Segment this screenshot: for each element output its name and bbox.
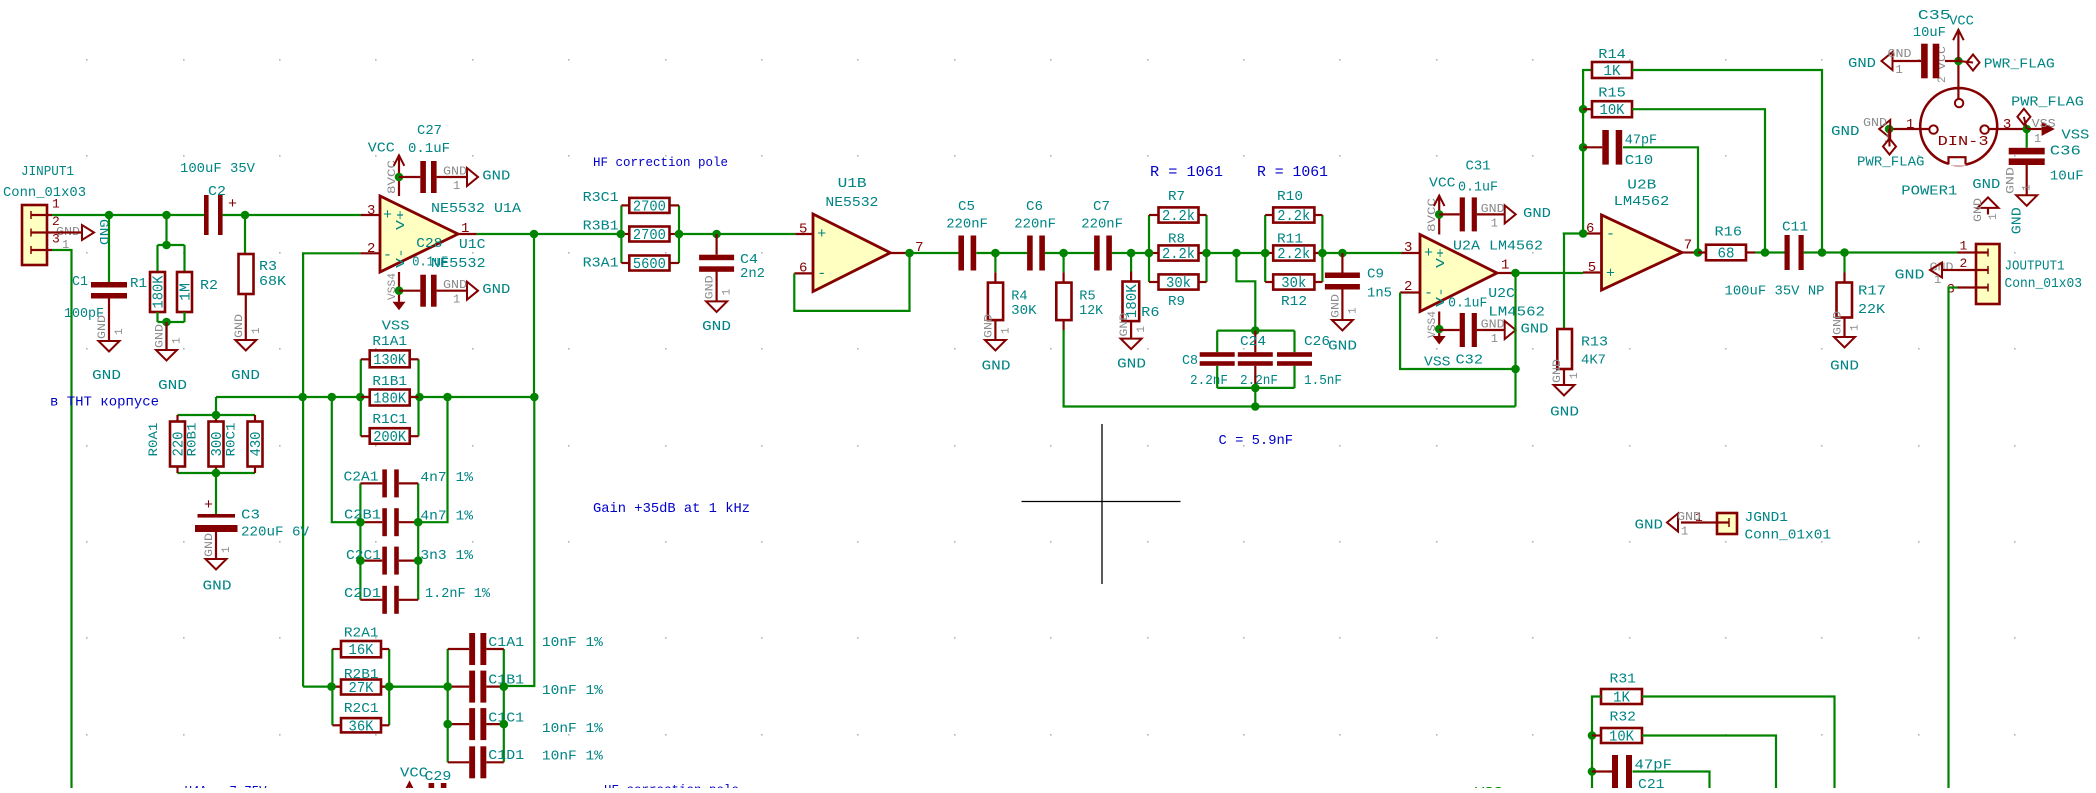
power GND at JINPUT1 pin 2	[52, 219, 111, 252]
svg-text:12K: 12K	[1079, 303, 1103, 319]
svg-text:R3: R3	[259, 259, 277, 275]
svg-text:GND: GND	[1328, 339, 1357, 355]
svg-text:220nF: 220nF	[946, 217, 988, 233]
svg-text:GND: GND	[203, 579, 232, 595]
svg-text:GND: GND	[983, 314, 995, 338]
capacitor bank bottom rail	[1217, 366, 1294, 407]
svg-text:R0A1: R0A1	[146, 422, 161, 456]
junction rail x447	[443, 393, 452, 402]
svg-text:R17: R17	[1858, 284, 1886, 300]
ground below R4	[982, 314, 1013, 375]
svg-text:GND: GND	[1972, 177, 2000, 193]
svg-text:4K7: 4K7	[1581, 353, 1606, 369]
junction U1A VCC	[395, 173, 404, 182]
svg-text:C3: C3	[241, 508, 260, 524]
svg-text:5: 5	[799, 222, 807, 238]
junction rail x419	[415, 393, 424, 402]
connector JINPUT1	[3, 164, 86, 265]
wire R2 bank to C1 bank	[389, 685, 448, 687]
junction R3 bank right	[675, 230, 684, 239]
resistor R2B1 27K	[341, 667, 381, 697]
svg-text:10uF: 10uF	[2050, 169, 2084, 185]
svg-text:220nF: 220nF	[1014, 217, 1056, 233]
resistor R0A1 220	[146, 422, 188, 467]
resistor R14 1K	[1592, 47, 1632, 80]
svg-text:VCC: VCC	[1949, 13, 1974, 29]
junction at C1 tap	[105, 211, 114, 220]
resistor R3C1 2700	[583, 190, 670, 215]
connector JGND1	[1681, 510, 1831, 544]
svg-text:R2: R2	[200, 278, 218, 294]
svg-text:+: +	[1606, 266, 1615, 283]
svg-text:1: 1	[221, 546, 233, 553]
svg-text:R1B1: R1B1	[372, 374, 407, 390]
power GND at JOUTPUT1 pin 2	[1895, 261, 1958, 288]
svg-text:GND: GND	[1330, 294, 1342, 318]
svg-text:4n7 1%: 4n7 1%	[420, 470, 473, 486]
svg-text:R3C1: R3C1	[583, 190, 619, 206]
svg-text:1: 1	[453, 293, 460, 307]
capacitor C31 0.1uF bypass	[1439, 159, 1498, 232]
resistor R3 68K	[239, 215, 287, 294]
resistor R16 68	[1698, 225, 1755, 263]
junction C9 tap	[1338, 249, 1347, 258]
wire U1B feedback	[794, 253, 909, 311]
wire R10 bank to U2A	[1322, 252, 1401, 254]
svg-text:R16: R16	[1715, 225, 1743, 241]
ground left of C35	[1848, 47, 1921, 77]
wire R31 left rail	[1592, 697, 1601, 789]
resistor R32 10K	[1592, 710, 1642, 746]
svg-text:R2A1: R2A1	[344, 626, 379, 642]
capacitor C3 220uF 6V	[195, 473, 310, 541]
svg-text:VSS: VSS	[2032, 117, 2056, 131]
capacitor bank C1A1-C1D1 brackets	[448, 649, 504, 762]
wire C11 to JOUTPUT1	[1804, 251, 1958, 253]
capacitor C1C1 10nF	[469, 708, 603, 740]
svg-text:VSS4: VSS4	[1427, 311, 1439, 338]
ground right of C28	[437, 278, 511, 307]
svg-text:2: 2	[1960, 256, 1968, 271]
svg-text:Gain +35dB at 1 kHz: Gain +35dB at 1 kHz	[593, 501, 750, 517]
pin 1 of DIN	[1889, 117, 1929, 133]
ground below C3	[203, 532, 234, 595]
resistor R10 2.2k	[1273, 189, 1314, 225]
wire down to C8 C24 C26 bank	[1236, 253, 1255, 331]
label bottom clipped	[185, 784, 268, 793]
svg-text:NE5532: NE5532	[431, 256, 486, 272]
capacitor C32 0.1uF bypass	[1439, 313, 1483, 369]
svg-text:1: 1	[1501, 258, 1509, 274]
junction rail x302	[298, 393, 307, 402]
svg-text:V-: V-	[1434, 287, 1448, 307]
svg-text:100uF 35V: 100uF 35V	[180, 161, 256, 177]
svg-text:1: 1	[1136, 326, 1148, 333]
resistor R3B1 2700	[583, 219, 670, 245]
resistor R12 30k	[1273, 274, 1314, 310]
svg-text:1: 1	[1000, 327, 1012, 334]
resistor R4 30K	[988, 253, 1037, 320]
svg-text:R3A1: R3A1	[583, 256, 619, 272]
svg-text:30K: 30K	[1011, 303, 1037, 319]
svg-text:68: 68	[1718, 247, 1735, 263]
label HF correction pole	[593, 155, 728, 170]
capacitor C24 2.2nF	[1238, 331, 1278, 389]
resistor R2A1 16K	[341, 626, 381, 659]
svg-text:R14: R14	[1598, 47, 1626, 63]
svg-text:GND: GND	[97, 315, 109, 339]
label HF correction pole bottom	[604, 783, 739, 793]
wire R32 right	[1642, 736, 1776, 789]
svg-text:+: +	[228, 196, 237, 213]
svg-text:C31: C31	[1466, 159, 1491, 175]
svg-text:10nF 1%: 10nF 1%	[542, 749, 604, 765]
resistor bank R10 R11 R12	[1265, 215, 1322, 282]
svg-text:GND: GND	[1888, 47, 1912, 61]
svg-text:GND: GND	[1117, 357, 1146, 373]
capacitor C2A1 4n7	[344, 469, 474, 497]
label C = 5.9nF	[1219, 433, 1294, 449]
wire U1A out rail down	[504, 234, 535, 686]
junction R1R2 top	[162, 241, 171, 250]
junction R15 left	[1579, 105, 1588, 114]
wire feedback to lower rail	[1514, 369, 1516, 407]
svg-text:GND: GND	[1895, 268, 1925, 284]
svg-text:1.5nF: 1.5nF	[1304, 373, 1342, 389]
wire R31 right	[1642, 697, 1835, 789]
svg-text:6: 6	[799, 261, 807, 277]
svg-text:VSS: VSS	[2061, 127, 2089, 143]
op-amp U2B LM4562	[1583, 177, 1699, 290]
junction C2B1 right	[414, 518, 423, 527]
svg-text:U2B: U2B	[1627, 177, 1656, 193]
svg-text:R1A1: R1A1	[372, 334, 407, 350]
svg-text:U2C: U2C	[1488, 286, 1515, 302]
capacitor C1 100pF	[64, 215, 127, 322]
svg-text:30k: 30k	[1281, 276, 1306, 292]
svg-text:22K: 22K	[1858, 302, 1886, 318]
power VCC at C29	[400, 765, 428, 793]
wire C6 C7	[1045, 252, 1094, 254]
svg-text:GND: GND	[1677, 510, 1701, 524]
svg-text:VCC: VCC	[368, 141, 395, 157]
svg-text:C36: C36	[2050, 144, 2081, 160]
connector JOUTPUT1	[1947, 239, 2082, 305]
svg-text:GND: GND	[1552, 359, 1564, 383]
svg-text:U4A = 7.75V: U4A = 7.75V	[185, 784, 268, 788]
svg-text:VSS4: VSS4	[387, 273, 399, 300]
resistor R5 12K	[1056, 253, 1103, 320]
svg-text:PWR_FLAG: PWR_FLAG	[1857, 155, 1925, 171]
svg-text:30k: 30k	[1166, 276, 1191, 292]
svg-text:16K: 16K	[349, 643, 374, 659]
resistor bank R3C1 R3B1 R3A1	[621, 205, 679, 263]
svg-text:GND: GND	[705, 275, 717, 299]
op-amp U2A LM4562	[1400, 197, 1543, 338]
svg-text:2.2k: 2.2k	[1162, 247, 1195, 263]
svg-text:1: 1	[1988, 213, 2000, 220]
svg-text:+: +	[1424, 245, 1433, 262]
svg-text:1: 1	[1491, 216, 1498, 230]
svg-text:1K: 1K	[1613, 691, 1630, 707]
ground below R17	[1830, 311, 1862, 375]
junction DIN pin3	[2022, 125, 2031, 134]
svg-text:0.1uF: 0.1uF	[408, 141, 450, 157]
capacitor C9 1n5	[1325, 253, 1392, 302]
svg-text:C8: C8	[1182, 353, 1198, 369]
resistor R2 1M	[177, 272, 218, 312]
wire R7 bank to R10 bank	[1207, 252, 1266, 254]
junction C2C1 right	[414, 556, 423, 565]
resistor bank R0A1 R0B1 R0C1	[178, 397, 256, 473]
svg-text:R1C1: R1C1	[372, 412, 407, 428]
svg-text:C = 5.9nF: C = 5.9nF	[1219, 433, 1294, 449]
junction C2B1 left	[356, 518, 365, 527]
svg-text:GND: GND	[1521, 322, 1549, 338]
resistor bank R7 R8 R9	[1149, 215, 1207, 282]
svg-text:1: 1	[1569, 372, 1581, 379]
wire U2B pin6 node rail	[1563, 70, 1592, 234]
svg-text:-: -	[383, 247, 392, 264]
wire C10 to U2B output	[1623, 147, 1698, 252]
svg-text:GND: GND	[92, 368, 121, 384]
svg-text:1: 1	[453, 179, 460, 193]
capacitor C4 2n2	[699, 234, 765, 282]
svg-text:C1D1: C1D1	[488, 748, 524, 764]
junction C21 left	[1588, 767, 1597, 776]
svg-text:LM4562: LM4562	[1614, 194, 1670, 210]
svg-text:6: 6	[1586, 221, 1594, 237]
capacitor C2C1 3n3	[346, 547, 474, 575]
svg-text:2n2: 2n2	[740, 266, 765, 282]
junction R2 bank left	[327, 682, 336, 691]
svg-text:C5: C5	[958, 199, 975, 215]
svg-text:1: 1	[1906, 117, 1914, 133]
capacitor C27 0.1uF bypass	[399, 123, 450, 193]
svg-text:C2D1: C2D1	[344, 586, 381, 602]
unit U1C labels	[431, 237, 486, 272]
svg-text:4n7 1%: 4n7 1%	[420, 509, 473, 525]
junction R4 tap	[991, 249, 1000, 258]
wire R3 bank to U1B	[679, 233, 795, 235]
svg-text:10nF 1%: 10nF 1%	[542, 683, 604, 699]
svg-text:0.1uF: 0.1uF	[1458, 180, 1498, 196]
svg-text:R13: R13	[1581, 335, 1608, 351]
svg-text:1: 1	[1960, 239, 1968, 254]
junction U2A VCC	[1435, 210, 1444, 219]
svg-text:U1C: U1C	[459, 237, 486, 253]
svg-text:C35: C35	[1918, 8, 1951, 24]
junction rail x360	[356, 393, 365, 402]
svg-text:2: 2	[367, 241, 375, 257]
pin 3 of DIN	[1989, 117, 2027, 133]
ground below C4	[702, 271, 734, 335]
svg-text:GND: GND	[231, 368, 260, 384]
capacitor C28 0.1uF bypass	[399, 236, 448, 307]
svg-text:1n5: 1n5	[1367, 286, 1392, 302]
svg-text:NE5532: NE5532	[825, 195, 878, 211]
svg-text:36K: 36K	[349, 719, 374, 735]
junction pin6 rail	[1579, 229, 1588, 238]
svg-text:POWER1: POWER1	[1901, 183, 1957, 199]
svg-text:430: 430	[249, 432, 265, 457]
svg-text:10nF 1%: 10nF 1%	[542, 635, 604, 651]
svg-text:47pF: 47pF	[1625, 132, 1657, 148]
svg-text:Conn_01x03: Conn_01x03	[3, 185, 86, 201]
resistor R13 4K7	[1557, 234, 1608, 370]
svg-text:5600: 5600	[633, 257, 666, 273]
junction R1R2 bottom	[162, 318, 171, 327]
junction after R16	[1761, 248, 1770, 257]
svg-text:GND: GND	[1833, 311, 1845, 335]
junction R17 tap	[1840, 248, 1849, 257]
resistor R1 180K	[130, 272, 168, 312]
ground left of DIN pin1	[1831, 116, 1891, 146]
svg-text:R1: R1	[130, 276, 147, 292]
svg-text:R8: R8	[1168, 232, 1185, 248]
flag PWR_FLAG on VCC	[1958, 55, 2054, 73]
ground right of C27	[437, 165, 511, 194]
svg-text:10nF 1%: 10nF 1%	[542, 721, 604, 737]
ground below R3	[231, 294, 263, 384]
svg-text:130K: 130K	[373, 353, 406, 369]
svg-text:1: 1	[1934, 273, 1941, 287]
svg-text:1: 1	[172, 337, 184, 344]
svg-text:V-: V-	[394, 248, 408, 268]
svg-text:220nF: 220nF	[1081, 217, 1123, 233]
svg-text:C7: C7	[1093, 199, 1110, 215]
resistor R6 180K	[1123, 253, 1160, 321]
junction at R3 tap	[241, 211, 250, 220]
resistor bank R2A1 R2B1 R2C1	[332, 649, 389, 725]
label R = 1061 right	[1257, 164, 1328, 181]
capacitor C21 47pF	[1592, 755, 1672, 793]
svg-text:C28: C28	[416, 236, 442, 252]
junction U1B output	[905, 249, 914, 258]
svg-text:GND: GND	[2006, 166, 2018, 194]
svg-text:GND: GND	[1863, 116, 1887, 130]
svg-text:2: 2	[1404, 279, 1412, 295]
svg-text:R = 1061: R = 1061	[1257, 164, 1328, 181]
svg-text:-: -	[817, 266, 826, 283]
unit U2C labels	[1448, 286, 1545, 321]
capacitor C10 47pF	[1583, 130, 1657, 169]
svg-text:C24: C24	[1240, 334, 1266, 350]
wire input line	[52, 214, 204, 216]
wire lower feed row	[303, 685, 448, 687]
svg-text:3: 3	[1404, 240, 1412, 256]
svg-text:10K: 10K	[1609, 730, 1634, 746]
svg-text:1: 1	[114, 328, 126, 335]
capacitor C36 10uF	[2009, 129, 2084, 185]
capacitor C11 100uF 35V NP	[1725, 220, 1825, 300]
flag PWR_FLAG on GND	[1857, 129, 1925, 171]
svg-text:GND: GND	[443, 278, 467, 292]
wire C2 to U1A	[223, 214, 361, 216]
svg-text:R0B1: R0B1	[185, 422, 200, 456]
svg-text:GND: GND	[482, 169, 510, 185]
svg-text:R11: R11	[1277, 232, 1303, 248]
svg-text:-: -	[1606, 226, 1615, 243]
svg-text:R12: R12	[1281, 294, 1307, 310]
power VCC at U2A	[1429, 176, 1456, 215]
svg-text:HF correction pole: HF correction pole	[604, 783, 739, 789]
svg-text:C32: C32	[1456, 353, 1484, 369]
svg-text:C29: C29	[425, 769, 452, 785]
svg-text:+: +	[817, 226, 826, 243]
resistor R8 2.2k	[1159, 232, 1199, 264]
svg-text:27K: 27K	[349, 681, 374, 697]
junction C bank top	[1251, 326, 1260, 335]
svg-text:68K: 68K	[259, 274, 287, 290]
resistor R0B1 300	[185, 422, 227, 467]
resistor R0C1 430	[224, 422, 266, 467]
svg-text:HF correction pole: HF correction pole	[593, 155, 728, 170]
junction C bank bottom	[1251, 384, 1260, 393]
label VSS net bottom	[1475, 785, 1503, 793]
svg-text:2.2k: 2.2k	[1277, 209, 1310, 225]
capacitor C2B1 4n7	[344, 508, 474, 537]
junction R0 bank bottom	[212, 469, 221, 478]
capacitor C2D1 1.2nF	[344, 586, 491, 614]
svg-text:1: 1	[2022, 184, 2034, 191]
junction R0 bank top	[212, 411, 221, 420]
power VCC at U1A	[368, 141, 405, 178]
svg-text:V+: V+	[394, 210, 408, 230]
svg-text:DIN-3: DIN-3	[1938, 134, 1989, 150]
svg-text:GND: GND	[482, 282, 510, 298]
svg-text:U1B: U1B	[838, 176, 867, 192]
svg-text:C2A1: C2A1	[344, 469, 379, 485]
svg-text:R6: R6	[1141, 305, 1159, 321]
ground at DIN shield	[1972, 177, 2000, 222]
wire R15 to R16 node	[1632, 109, 1765, 252]
power VSS right of DIN pin3	[2027, 117, 2090, 146]
wire R16 to C11	[1755, 251, 1785, 253]
wire U1A output	[477, 233, 621, 235]
svg-text:R = 1061: R = 1061	[1150, 164, 1223, 181]
pin 2 of DIN	[1937, 46, 1958, 99]
capacitor C1D1 10nF	[469, 746, 603, 778]
resistor R9 30k	[1159, 274, 1199, 310]
svg-text:5: 5	[1588, 260, 1596, 276]
capacitor C6 220nF	[1014, 199, 1056, 271]
wire C21 right	[1633, 772, 1710, 789]
svg-text:в ТНТ корпусе: в ТНТ корпусе	[50, 395, 159, 411]
svg-text:GND: GND	[158, 378, 187, 394]
svg-text:GND: GND	[1831, 124, 1860, 140]
svg-text:GND: GND	[1481, 202, 1505, 216]
svg-text:2.2k: 2.2k	[1162, 209, 1195, 225]
svg-text:3: 3	[367, 203, 375, 219]
svg-text:200K: 200K	[373, 430, 406, 446]
junction R10 bank left	[1261, 249, 1270, 258]
capacitor C1A1 10nF	[469, 633, 603, 665]
svg-text:C21: C21	[1638, 777, 1665, 788]
svg-text:JGND1: JGND1	[1745, 510, 1789, 526]
svg-text:VSS: VSS	[382, 319, 410, 335]
svg-text:R0C1: R0C1	[224, 422, 239, 456]
junction R7 bank left	[1145, 249, 1154, 258]
svg-text:GND: GND	[702, 319, 731, 335]
svg-text:C10: C10	[1625, 153, 1653, 169]
svg-text:2700: 2700	[633, 199, 666, 215]
resistor R1C1 200K	[370, 412, 410, 446]
svg-text:10uF: 10uF	[1913, 25, 1946, 41]
resistor R3A1 5600	[583, 256, 670, 274]
capacitor C7 220nF	[1081, 199, 1123, 271]
svg-text:PWR_FLAG: PWR_FLAG	[2011, 94, 2084, 110]
